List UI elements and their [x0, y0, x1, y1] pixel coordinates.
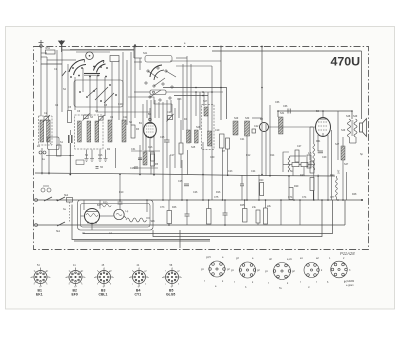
svg-text:m: m	[129, 277, 131, 279]
resistor R47	[243, 209, 248, 223]
trimmer capacitor C10	[98, 115, 105, 122]
resistor R21	[256, 210, 260, 223]
svg-text:C19: C19	[215, 129, 220, 132]
AVC components cluster	[138, 152, 155, 166]
svg-text:S47: S47	[335, 143, 340, 146]
filter box L23	[292, 163, 299, 167]
socket B1 EK1	[32, 268, 50, 286]
switch wipers lower	[88, 87, 114, 103]
wires power section verticals	[169, 175, 318, 226]
wire volume column	[119, 174, 121, 200]
loudspeaker	[360, 119, 367, 137]
svg-text:g4,5: g4,5	[206, 256, 211, 259]
coil S27	[204, 107, 208, 116]
socket diagram B	[239, 262, 256, 278]
wire double top link	[60, 50, 134, 61]
svg-text:C18: C18	[130, 167, 135, 170]
component box R11	[48, 137, 59, 150]
tube B3 (output pentode)	[316, 118, 331, 137]
svg-text:R43: R43	[300, 174, 305, 177]
wires filter bracket	[283, 152, 314, 172]
switch label box Sk5	[76, 160, 84, 165]
svg-text:C21: C21	[240, 138, 245, 141]
coil S32	[143, 152, 147, 165]
IF transformer 2 coil S30	[245, 121, 250, 136]
svg-text:S49: S49	[353, 115, 358, 118]
capacitor C66	[288, 109, 290, 114]
wire detector to output grid	[269, 126, 316, 128]
wire HT rail	[35, 199, 362, 201]
output transformer coil S48	[348, 119, 351, 137]
socket B2 EF9	[67, 268, 85, 286]
svg-text:S29: S29	[234, 117, 239, 120]
capacitor C25	[184, 184, 189, 186]
svg-text:S31: S31	[280, 112, 285, 115]
resistor R40	[295, 150, 299, 162]
power unit inner box	[81, 204, 151, 228]
wires tuner verticals	[41, 45, 135, 125]
pin labels B1	[30, 268, 51, 288]
svg-text:C23: C23	[228, 170, 233, 173]
filament resistor R50	[100, 204, 111, 207]
wires right columns	[338, 111, 356, 200]
svg-text:CBL1: CBL1	[99, 293, 108, 297]
value labels group 1	[56, 101, 358, 233]
resistor R9	[151, 154, 155, 166]
svg-text:m: m	[162, 277, 164, 279]
svg-text:R10: R10	[119, 191, 124, 194]
wires switch to coils	[140, 56, 191, 150]
svg-text:C66: C66	[283, 105, 288, 108]
svg-text:C13: C13	[177, 98, 182, 101]
socket diagram D	[304, 263, 319, 278]
svg-text:Sk2: Sk2	[64, 194, 69, 197]
socket B3 CBL1	[95, 268, 113, 286]
resistor R20	[260, 183, 264, 196]
svg-text:C75: C75	[214, 196, 219, 199]
power unit box	[78, 200, 154, 230]
svg-text:C27: C27	[297, 145, 302, 148]
switch contacts row 2	[70, 75, 107, 78]
svg-text:Sk6: Sk6	[151, 220, 156, 223]
coil S6	[108, 120, 112, 142]
output transformer coil S49	[354, 119, 357, 137]
tube B4 (rectifier)	[85, 209, 100, 225]
trimmer capacitor C4	[43, 115, 50, 122]
svg-text:C77: C77	[330, 196, 335, 199]
svg-text:470U: 470U	[331, 54, 361, 68]
resistor R22	[264, 208, 268, 224]
wire grid link	[174, 95, 208, 97]
mains terminal lower	[35, 224, 38, 227]
value labels group 2	[36, 60, 364, 199]
capacitor trimmer C14	[167, 114, 174, 122]
wires mid verticals	[167, 104, 181, 168]
svg-text:C26: C26	[193, 191, 198, 194]
coil S2	[47, 120, 51, 142]
wire screen link	[163, 88, 227, 120]
wires detector	[262, 131, 266, 175]
svg-text:C74: C74	[302, 196, 307, 199]
svg-text:EF9: EF9	[72, 293, 78, 297]
svg-text:GLG5: GLG5	[166, 293, 175, 297]
svg-text:C22: C22	[254, 125, 259, 128]
svg-text:R16: R16	[216, 191, 221, 194]
tube B1 (frequency changer)	[144, 122, 157, 138]
wire right HT column	[361, 51, 363, 119]
svg-text:C24: C24	[251, 170, 256, 173]
svg-text:m: m	[94, 277, 96, 279]
switch link (dashed)	[69, 202, 71, 223]
svg-text:S27: S27	[203, 100, 208, 103]
svg-text:R51: R51	[46, 47, 51, 50]
socket B4 CY1	[130, 268, 148, 286]
switch Sk1b	[57, 197, 65, 201]
pin labels B3	[94, 268, 115, 288]
svg-text:R20: R20	[259, 179, 264, 182]
resistor R41	[307, 155, 311, 168]
capacitor C28	[240, 184, 244, 186]
svg-text:R12: R12	[246, 154, 251, 157]
oscillator coil S25	[187, 130, 191, 143]
svg-text:C31: C31	[131, 148, 136, 151]
switch Sk1a	[44, 197, 52, 201]
wires left mid	[42, 130, 70, 175]
wire outer enclosure	[72, 205, 210, 240]
capacitor C76	[223, 213, 228, 215]
pin labels B4	[129, 268, 150, 288]
svg-text:m: m	[65, 277, 67, 279]
coil S1	[40, 120, 44, 142]
svg-text:S49: S49	[341, 129, 346, 132]
wire y92 link	[57, 80, 223, 168]
mains terminal upper	[35, 199, 38, 202]
wire IF column	[220, 47, 222, 121]
svg-text:R42: R42	[330, 174, 335, 177]
wire top rail left	[62, 49, 134, 51]
coil S7	[122, 120, 126, 142]
svg-text:S47: S47	[338, 169, 341, 174]
svg-text:C29: C29	[322, 156, 327, 159]
switch contacts row 1	[72, 66, 108, 69]
switch bar	[84, 74, 100, 76]
svg-text:R31: R31	[316, 140, 321, 143]
oscillator coil unit (dashed box)	[75, 115, 104, 149]
capacitor C18	[135, 166, 137, 169]
svg-text:R50: R50	[103, 202, 108, 205]
svg-text:S25: S25	[191, 146, 196, 149]
capacitor C7a	[118, 200, 123, 209]
wire enclosure right	[344, 200, 346, 225]
svg-text:(+)GRAM: (+)GRAM	[344, 280, 354, 283]
wires earth stubs	[87, 148, 116, 168]
capacitor C31	[138, 158, 142, 160]
wire AVC rail	[35, 173, 335, 176]
resistor R31 (wirewound)	[313, 144, 315, 170]
antenna terminal	[39, 40, 44, 60]
resistor R30 (wirewound)	[288, 156, 290, 172]
fuse Sk2	[67, 198, 73, 203]
resistor R45	[207, 209, 212, 225]
gram terminal pair	[39, 151, 42, 154]
coil S31	[279, 117, 284, 134]
capacitor C15	[164, 140, 170, 142]
wire antenna to tuner	[41, 60, 62, 64]
svg-text:R45: R45	[240, 204, 245, 207]
heater dropper resistor	[126, 218, 146, 222]
band switch wiper arcs	[62, 60, 106, 77]
capacitor C75	[185, 214, 190, 216]
svg-text:C25: C25	[178, 180, 183, 183]
wire chassis rail	[35, 224, 345, 226]
svg-text:C15: C15	[160, 136, 165, 139]
filter box L24	[301, 163, 308, 167]
pin labels B5	[162, 268, 183, 288]
svg-text:S48: S48	[346, 115, 351, 118]
svg-text:S47: S47	[344, 163, 349, 166]
svg-text:C16: C16	[98, 154, 103, 157]
transformer core	[351, 120, 353, 136]
resistor R42 (wirewound)	[336, 178, 338, 197]
wire ladder top-left	[41, 53, 62, 64]
resistor R5	[151, 152, 155, 161]
wire top rail right	[212, 50, 362, 52]
value labels group 3	[44, 42, 349, 209]
resistor R51	[46, 47, 56, 54]
schematic border frame (dash-dot)	[34, 47, 369, 250]
svg-text:R14: R14	[270, 154, 275, 157]
band switch lower section box	[74, 80, 123, 107]
trimmer capacitor C8	[83, 114, 90, 121]
voltage selector	[41, 186, 51, 192]
wire outer enclosure second	[74, 240, 210, 242]
wires tube B1 pins	[146, 108, 154, 175]
switch Sk1c	[57, 222, 65, 226]
grid cap B1	[149, 118, 152, 121]
svg-text:S21: S21	[143, 52, 148, 55]
wire lower enclosure	[153, 200, 322, 237]
socket diagram C	[273, 263, 291, 280]
earth terminal	[59, 40, 65, 52]
svg-text:R29: R29	[294, 185, 299, 188]
svg-text:S30: S30	[245, 117, 250, 120]
capacitor C22	[252, 129, 256, 133]
svg-text:EK1: EK1	[36, 293, 43, 297]
svg-text:P11A28: P11A28	[340, 251, 355, 256]
pin labels B2	[65, 268, 86, 288]
coil S4	[87, 121, 91, 142]
resistor R46	[167, 211, 172, 224]
switch box Sk3	[150, 90, 166, 95]
svg-text:S26: S26	[196, 126, 201, 129]
wires oscillator comb	[134, 44, 221, 143]
oscillator coil S26	[195, 130, 199, 143]
svg-text:Sk1: Sk1	[56, 230, 61, 233]
capacitor trimmer box C3	[110, 56, 119, 62]
resistor R7	[220, 134, 225, 148]
svg-text:C74: C74	[288, 196, 293, 199]
svg-text:C14: C14	[167, 111, 172, 114]
tuning gang shaft	[86, 52, 94, 60]
svg-text:e-gram: e-gram	[346, 284, 354, 287]
wire anode loop	[278, 111, 352, 119]
wires output tube	[310, 110, 328, 200]
wire gram link	[46, 155, 74, 157]
socket B5 GLG5	[163, 268, 181, 286]
switch contacts lower	[79, 84, 117, 102]
capacitor C16a	[96, 167, 99, 169]
svg-text:C17: C17	[170, 154, 175, 157]
capacitor C71	[318, 151, 323, 153]
wire mains cord drop	[179, 230, 181, 248]
svg-text:m: m	[30, 277, 32, 279]
wire detector top link	[252, 117, 262, 119]
wire IF column	[261, 47, 263, 123]
svg-text:CY1: CY1	[135, 293, 142, 297]
wires power box	[81, 200, 151, 230]
oscillator switch assembly	[145, 56, 176, 102]
earth symbol 1	[85, 159, 108, 162]
coil S3	[78, 121, 82, 142]
wire output cathode column	[331, 130, 333, 200]
wire C28 stubs	[241, 175, 243, 200]
junction dot	[69, 174, 71, 176]
svg-text:C66: C66	[275, 101, 280, 104]
svg-text:C16: C16	[148, 146, 153, 149]
socket diagram A (underside view)	[209, 261, 226, 277]
svg-text:a,d1: a,d1	[287, 258, 292, 261]
resistor R39	[310, 161, 314, 173]
dial lamp	[114, 209, 124, 219]
resistor R3	[131, 125, 135, 138]
resistor R8	[226, 138, 230, 149]
aerial coil unit S1 S2 (dashed box)	[39, 116, 53, 145]
wires AVC verticals	[140, 66, 259, 200]
wire speaker return	[346, 172, 348, 200]
resistor R6	[179, 143, 183, 154]
socket diagram E	[331, 261, 348, 278]
resistor R43	[310, 178, 314, 191]
coil S28	[208, 131, 212, 146]
svg-text:C73: C73	[160, 206, 165, 209]
svg-text:C20: C20	[210, 156, 215, 159]
IF transformer 1 (dashed box)	[202, 105, 215, 150]
resistor R1	[68, 111, 72, 123]
smoothing choke S47	[341, 146, 345, 160]
coil S5	[95, 121, 99, 142]
resistor R2	[57, 145, 62, 156]
svg-text:C11: C11	[123, 116, 128, 119]
IF transformer 2 coil S29	[233, 121, 238, 135]
electrolytic capacitor C30	[69, 135, 72, 143]
resistor R29	[289, 188, 293, 200]
svg-text:R46: R46	[172, 206, 177, 209]
tube B2 diode (detector)	[260, 123, 269, 132]
svg-text:C10: C10	[118, 103, 123, 106]
wire enclosure line	[83, 225, 333, 234]
wire antenna drop	[133, 46, 135, 59]
wires right mid verticals	[266, 105, 336, 200]
svg-text:R48: R48	[352, 193, 357, 196]
